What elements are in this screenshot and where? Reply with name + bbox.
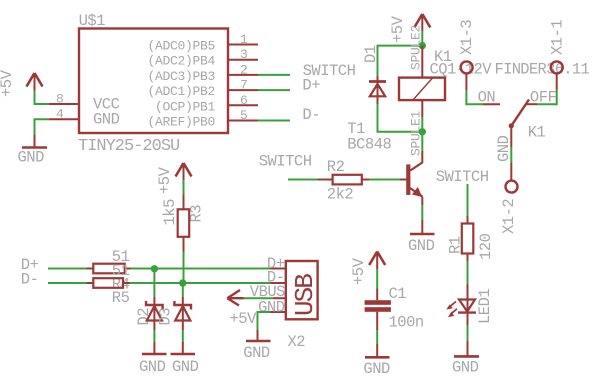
svg-text:D2: D2 (135, 308, 153, 326)
wire USB GND down (258, 312, 271, 330)
svg-text:GND: GND (18, 149, 45, 167)
svg-text:FINDER36.11: FINDER36.11 (495, 61, 590, 79)
svg-text:K1: K1 (528, 124, 546, 142)
wire SWITCH to R2 (288, 179, 318, 181)
svg-text:ON: ON (478, 89, 496, 107)
svg-text:C1: C1 (389, 285, 407, 303)
svg-text:(AREF)PB0: (AREF)PB0 (147, 115, 215, 130)
supply +5V symbol R3 (176, 163, 192, 180)
svg-text:+5V: +5V (0, 69, 16, 97)
svg-text:D-: D- (21, 271, 39, 289)
svg-text:1k5: 1k5 (161, 199, 179, 226)
relay contact K1 arm (509, 100, 529, 129)
ground symbol D3 (171, 342, 196, 354)
svg-text:4: 4 (56, 107, 64, 122)
wire R1 to LED1 (467, 261, 469, 284)
svg-text:GND: GND (363, 360, 390, 378)
wire +5V to R3 (183, 180, 185, 195)
svg-text:D3: D3 (157, 308, 175, 326)
svg-text:(ADC0)PB5: (ADC0)PB5 (147, 39, 215, 54)
wire VBUS (244, 297, 274, 299)
connector X1-3 pin circle (461, 61, 473, 90)
junction node D+ (151, 265, 158, 272)
svg-text:GND: GND (172, 358, 199, 376)
svg-text:GND: GND (93, 111, 120, 129)
svg-text:1: 1 (240, 32, 248, 47)
wire D- to R5 (48, 282, 87, 284)
svg-text:100n: 100n (389, 314, 424, 332)
supply +5V symbol C1 (369, 252, 385, 270)
supply +5V symbol top-left (27, 73, 43, 91)
svg-text:GND: GND (258, 298, 285, 316)
svg-text:LED1: LED1 (476, 289, 494, 324)
wire D2 to GND (153, 330, 155, 342)
diode D1 (369, 75, 386, 104)
resistor R3 (178, 195, 190, 252)
svg-text:D-: D- (302, 106, 320, 124)
svg-text:SWITCH: SWITCH (436, 168, 489, 186)
pin 3 line PB4 (228, 59, 258, 61)
svg-text:TINY25-20SU: TINY25-20SU (78, 137, 179, 156)
svg-text:SWITCH: SWITCH (259, 153, 312, 171)
base pin (400, 179, 407, 181)
svg-text:R2: R2 (327, 158, 345, 176)
junction node coil top (419, 42, 426, 49)
wire X1-3 to ON contact (466, 91, 483, 105)
wire R5 to USB D- (130, 282, 271, 284)
switch OFF fixed contact pin (526, 103, 537, 105)
svg-text:5: 5 (240, 108, 248, 123)
svg-text:(ADC1)PB2: (ADC1)PB2 (147, 84, 215, 99)
USB pin D- (271, 282, 286, 284)
svg-text:2: 2 (240, 62, 248, 77)
connector X1-1 pin circle (551, 61, 563, 89)
ground symbol LED (454, 341, 479, 356)
ground symbol transistor (410, 220, 435, 234)
resistor R1 (462, 216, 474, 261)
junction node coil bottom (419, 128, 426, 135)
pin 4 line GND (49, 118, 79, 120)
svg-text:(ADC3)PB3: (ADC3)PB3 (147, 69, 215, 84)
pin 2 line PB3 (228, 74, 258, 76)
wire D- junction to D3 (182, 283, 184, 297)
svg-text:120: 120 (477, 233, 495, 260)
IC U$1 TINY25-20SU body (79, 29, 228, 134)
connector X2 USB body (286, 261, 318, 319)
wire junction to collector (421, 132, 423, 151)
USB pin VBUS (273, 297, 286, 299)
wire X1-1 to OFF contact (537, 90, 557, 105)
ground symbol D2 (142, 342, 167, 354)
svg-text:D1: D1 (362, 45, 380, 63)
wire junction to D1 branch (378, 46, 423, 76)
supply arrow VBUS +5V (227, 290, 243, 306)
wire coil bottom to junction (421, 117, 423, 132)
wire net D- from pin 5 (258, 120, 290, 122)
wire pin 4 to GND (35, 119, 49, 135)
svg-text:7: 7 (240, 78, 248, 93)
wire D+ to R4 (48, 268, 87, 270)
wire +5V to junction (421, 31, 423, 46)
connector X1-2 pin circle (506, 163, 518, 193)
wire +5V to pin 8 (35, 91, 49, 105)
USB pin GND (271, 311, 286, 313)
wire R2 to base (369, 179, 400, 181)
svg-text:GND: GND (452, 359, 479, 377)
svg-text:3: 3 (240, 47, 248, 62)
svg-text:SPULE2: SPULE2 (409, 25, 424, 70)
pin 5 line PB0 (228, 120, 258, 122)
svg-text:(OCP)PB1: (OCP)PB1 (155, 99, 216, 114)
svg-text:+5V: +5V (230, 310, 258, 328)
ground symbol left (22, 135, 47, 148)
svg-text:GND: GND (139, 358, 166, 376)
contact pole pin (510, 126, 512, 147)
transistor T1 (408, 151, 422, 205)
resistor R2 (318, 175, 369, 185)
svg-text:USB: USB (290, 274, 320, 316)
wire C1 to GND (376, 330, 378, 344)
resistor R4 (87, 264, 132, 274)
svg-text:2k2: 2k2 (327, 186, 354, 204)
wire SWITCH to R1 (467, 184, 469, 216)
wire pole to X1-2 (510, 147, 512, 163)
svg-text:U$1: U$1 (79, 12, 106, 30)
pin 8 line VCC (49, 103, 79, 105)
resistor R5 (87, 278, 131, 288)
svg-text:8: 8 (56, 92, 64, 107)
USB pin D+ (271, 268, 286, 270)
svg-text:D+: D+ (302, 77, 320, 95)
svg-text:GND: GND (243, 344, 270, 362)
svg-text:(ADC2)PB4: (ADC2)PB4 (147, 54, 215, 69)
wire D1 anode to coil bottom junction (378, 104, 423, 132)
ground symbol X2 (246, 330, 271, 341)
switch ON fixed contact pin (483, 103, 500, 105)
svg-text:X2: X2 (288, 333, 306, 351)
relay coil pin bottom (421, 100, 423, 117)
ground symbol C1 (365, 344, 390, 357)
capacitor C1 (365, 289, 391, 331)
wire net SWITCH from pin 2 (258, 74, 290, 76)
svg-text:+5V: +5V (389, 15, 407, 43)
svg-text:+5V: +5V (350, 257, 368, 285)
wire D+ junction to D2 (153, 269, 155, 297)
pin 1 line PB5 (228, 44, 258, 46)
svg-text:X1-3: X1-3 (458, 20, 476, 55)
wire R4 to USB D+ (131, 268, 271, 270)
zener diode D3 (174, 297, 191, 330)
relay K1 coil (399, 78, 445, 101)
pin 7 line PB2 (228, 89, 258, 91)
LED LED1 (446, 284, 476, 325)
wire net D+ from pin 7 (258, 89, 290, 91)
svg-text:GND: GND (408, 237, 435, 255)
svg-text:6: 6 (240, 93, 248, 108)
zener diode D2 (146, 297, 163, 330)
svg-text:OFF: OFF (530, 89, 557, 107)
svg-text:R5: R5 (112, 289, 130, 307)
svg-text:BC848: BC848 (347, 136, 391, 154)
relay coil pin top (421, 46, 423, 78)
pin 6 line PB1 (228, 104, 258, 106)
supply +5V symbol relay (414, 14, 430, 31)
svg-text:+5V: +5V (156, 166, 174, 194)
wire LED1 to GND (467, 325, 469, 341)
svg-text:X1-1: X1-1 (548, 20, 566, 55)
wire R3 to D- junction (183, 252, 185, 284)
wire emitter to GND (421, 205, 423, 220)
svg-text:X1-2: X1-2 (500, 199, 518, 234)
wire D3 to GND (182, 330, 184, 342)
wire +5V to C1 (376, 269, 378, 289)
junction node D- (179, 279, 186, 286)
